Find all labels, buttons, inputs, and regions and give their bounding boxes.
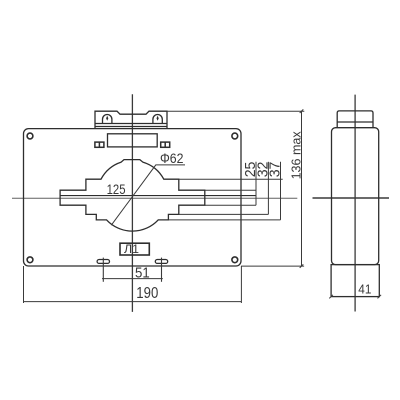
extension line top step [179,178,283,180]
leader line for D62 [111,165,185,225]
extension line 136max top [167,110,304,112]
bus bar line in window [60,195,256,197]
extension line slot top [205,189,256,191]
dimension line 51 [102,278,163,280]
label plate L1 [120,243,149,255]
extension line 190 left [23,266,25,303]
dimension line 136max [301,111,303,266]
bottom slot right centerline [161,258,163,282]
svg-text:Л1: Л1 [124,242,139,256]
mounting hole top-left [27,133,33,139]
bus window opening [60,160,205,232]
bottom slot left centerline [102,258,104,282]
bracket lug right [153,114,162,123]
horizontal centerline (side view) [313,197,390,199]
terminal block right [161,142,170,147]
bracket base line [95,126,167,128]
side view cap [337,111,373,128]
lug right slot marker [157,116,159,121]
dimension line 190 [24,301,242,303]
dimension line 37 [280,162,282,220]
side view base [331,265,379,297]
body outline (front view) [24,129,242,266]
svg-text:51: 51 [135,266,150,282]
bottom slot right [155,260,167,264]
svg-text:37: 37 [267,162,283,178]
lug left slot marker [106,116,108,121]
svg-text:Φ62: Φ62 [160,151,184,166]
horizontal centerline (front view) [12,197,297,199]
side view cap divider [337,121,373,123]
dimension line 25 [255,162,257,205]
tick marks 41 [329,295,381,299]
vertical centerline (side view) [354,95,356,312]
extension line slot bottom [205,204,256,206]
mounting hole bottom-left [27,257,33,263]
bracket lower edge line [95,123,167,125]
side view body [332,128,379,265]
svg-text:125: 125 [107,181,126,197]
extension line step 37 [168,219,280,221]
top mounting bracket outline [95,111,167,128]
extension line 190 right [240,266,242,303]
mounting hole top-right [232,133,238,139]
bottom slot left [97,260,109,264]
extension line 136max bottom [241,265,304,267]
terminal cover rectangle [108,134,158,147]
vertical centerline (front view) [131,94,133,312]
tick marks 136max [300,109,304,268]
svg-text:136 max: 136 max [289,131,304,179]
terminal block left [95,142,104,147]
bracket lug left [103,114,112,123]
svg-text:41: 41 [358,281,371,296]
svg-text:190: 190 [136,285,158,302]
dimension line 32 [267,162,269,215]
extension line step 32 [179,213,269,215]
mounting hole bottom-right [232,257,238,263]
